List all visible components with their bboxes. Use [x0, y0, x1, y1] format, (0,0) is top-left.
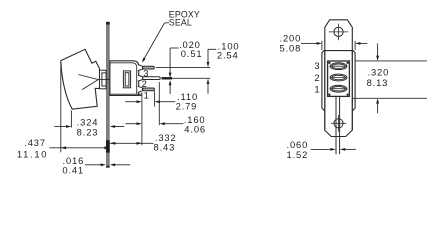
dimension .437/11.10: [17, 137, 110, 159]
top mounting hole: [329, 24, 349, 41]
actuator pivot lines: [78, 75, 98, 90]
dimension .324/8.23: [54, 117, 124, 138]
extension line paddle bottom corner: [70, 111, 72, 128]
terminal 3 rivet (rear): [330, 63, 347, 70]
svg-text:.437: .437: [24, 137, 46, 148]
terminal pin (rear, below): [336, 96, 340, 154]
svg-text:1: 1: [144, 90, 150, 101]
bracket sides through body: [325, 51, 353, 131]
dimension .020/0.51: [169, 39, 203, 94]
terminal block: [328, 61, 350, 96]
bushing between paddle and panel: [100, 70, 107, 89]
terminal 2 rivet (rear): [330, 74, 347, 81]
terminal 1 rivet (rear): [330, 85, 347, 92]
dimension .016/0.41: [62, 155, 130, 175]
extension line paddle top corner: [60, 62, 62, 152]
rocker paddle: [61, 49, 100, 109]
epoxy seal leader: [142, 23, 169, 63]
block corner rivets: [328, 62, 348, 96]
svg-text:2: 2: [142, 78, 148, 89]
switch body (side): [110, 61, 139, 96]
bottom mounting hole: [331, 115, 346, 132]
terminal 1 (side): [138, 86, 155, 92]
dimension .200/5.08: [280, 33, 368, 54]
svg-text:8.13: 8.13: [367, 77, 389, 88]
svg-text:2.54: 2.54: [217, 49, 239, 60]
svg-text:8.43: 8.43: [154, 142, 176, 153]
mounting bracket with ears: [325, 20, 353, 137]
terminal 2 (side): [138, 75, 160, 81]
svg-text:8.23: 8.23: [77, 126, 99, 137]
dimension .160/4.06: [125, 82, 206, 135]
extension line terminal 2 center: [162, 77, 211, 79]
svg-text:2: 2: [314, 72, 320, 83]
svg-text:1.52: 1.52: [287, 149, 309, 160]
svg-text:0.51: 0.51: [181, 48, 203, 59]
svg-text:4.06: 4.06: [184, 124, 206, 135]
svg-text:.320: .320: [368, 67, 390, 78]
svg-text:3: 3: [314, 60, 320, 71]
extension line terminal 3 center: [156, 66, 210, 68]
dimension .320/8.13: [352, 43, 427, 113]
svg-text:0.41: 0.41: [62, 164, 84, 175]
centerline: [98, 79, 124, 81]
dimension .110/2.79: [125, 91, 198, 145]
dimension .332/8.43: [110, 132, 177, 152]
svg-text:3: 3: [143, 68, 149, 79]
svg-text:1: 1: [314, 83, 320, 94]
dimension .100/2.54: [207, 41, 240, 94]
panel (mounting wall): [106, 22, 110, 168]
internal contact detail: [123, 71, 130, 88]
body inner wall: [110, 63, 137, 94]
terminal 3 (side): [138, 65, 155, 71]
svg-text:SEAL: SEAL: [169, 18, 192, 28]
svg-text:5.08: 5.08: [280, 43, 302, 54]
dimension .060/1.52: [287, 139, 356, 160]
svg-text:2.79: 2.79: [176, 101, 198, 112]
switch body (rear): [322, 51, 355, 109]
svg-text:11.10: 11.10: [17, 149, 48, 160]
